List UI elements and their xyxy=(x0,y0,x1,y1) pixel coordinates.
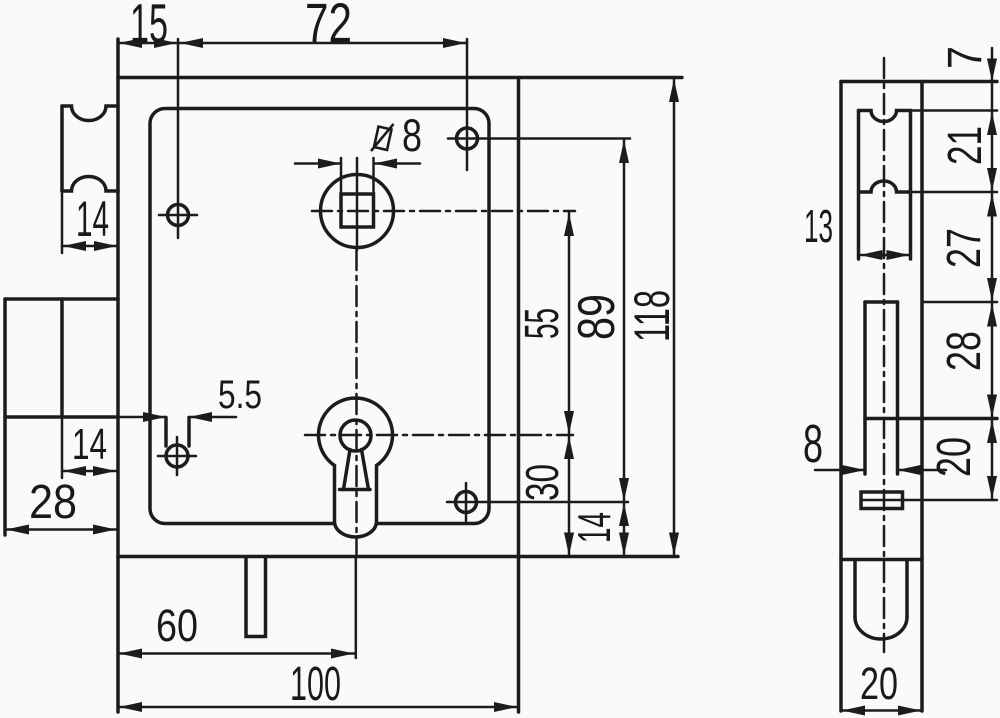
dimension line 118 xyxy=(673,78,676,557)
lower-left block left edge + extension for 28 dim xyxy=(3,299,7,535)
lower-left block step line xyxy=(60,299,64,417)
horizontal center line through follower + ext for 55 dim xyxy=(312,210,575,213)
diameter symbol of label (diam)8 xyxy=(371,124,394,151)
svg-text:28: 28 xyxy=(29,476,77,529)
svg-text:72: 72 xyxy=(305,0,352,54)
27 bottom arrow xyxy=(987,278,997,301)
extension line y=302 for 27/28 xyxy=(922,301,997,304)
svg-text:8: 8 xyxy=(402,110,422,161)
svg-text:5.5: 5.5 xyxy=(218,373,262,417)
slot left edge above lower-left hole xyxy=(164,418,168,447)
side view top edge + extension for 7 dim xyxy=(841,80,997,84)
dimension line 55 / 30 xyxy=(568,212,571,557)
28 bottom arrow xyxy=(987,395,997,418)
keyhole ward bottom line xyxy=(340,488,371,492)
side slot right edge + ext for 8 dim xyxy=(896,302,900,474)
dim 5.5 left leader xyxy=(118,416,166,419)
extension line y=110.5 for 7/21 xyxy=(911,109,997,112)
svg-text:14: 14 xyxy=(72,420,107,469)
vertical center line follower-keyhole xyxy=(355,250,358,556)
dimension line upper 14 xyxy=(62,245,118,248)
side chain dimension line 7/21/27/28/20 xyxy=(991,48,994,500)
55 bottom arrow xyxy=(564,411,574,434)
keyhole ward left side xyxy=(344,450,351,490)
svg-text:20: 20 xyxy=(928,437,981,477)
extension line left of square xyxy=(340,158,343,194)
21 bottom arrow xyxy=(987,168,997,191)
key guide dome left side xyxy=(853,561,857,617)
vertical cross lower-left hole xyxy=(176,437,179,475)
lock case bottom edge + extension for 118/14 dims xyxy=(118,555,678,559)
118 top arrow xyxy=(669,79,679,102)
svg-text:55: 55 xyxy=(516,308,569,339)
svg-text:118: 118 xyxy=(624,290,680,342)
upper 14 left arrow xyxy=(63,241,86,251)
dim 15 left arrow xyxy=(119,38,142,48)
20 bottom arrow xyxy=(987,476,997,499)
dim 5.5 right leader xyxy=(189,416,236,419)
vertical line through top-right hole (ext for 72) xyxy=(466,39,469,170)
20 top arrow xyxy=(987,420,997,443)
dimension line 100 xyxy=(118,706,518,709)
horizontal cross top-left hole xyxy=(159,214,197,217)
extension line y=192 for 21/27 xyxy=(911,191,997,194)
side view right edge + extension for bottom 20 xyxy=(920,82,924,712)
60 right arrow xyxy=(331,649,354,659)
28 top arrow xyxy=(987,304,997,327)
side slot bottom edge + ext for 28/20 dims xyxy=(865,417,997,421)
side view case bottom line xyxy=(841,558,922,562)
27 top arrow xyxy=(987,194,997,217)
side view vertical center line xyxy=(883,58,886,652)
screw hole lower-left xyxy=(166,445,188,467)
center line through square (solid) xyxy=(356,158,359,250)
keyhole round part xyxy=(340,420,371,451)
upper 14 right arrow xyxy=(94,241,117,251)
bolt cross-section rectangle xyxy=(861,492,903,509)
svg-text:14: 14 xyxy=(76,191,109,247)
55 top arrow xyxy=(564,213,574,236)
svg-text:14: 14 xyxy=(568,512,620,543)
svg-text:15: 15 xyxy=(130,0,168,54)
svg-text:100: 100 xyxy=(290,658,341,711)
side slot left edge + ext for 8 dim xyxy=(863,302,867,474)
30 top arrow xyxy=(564,436,574,459)
svg-text:89: 89 xyxy=(568,294,626,340)
side knuckle left edge + ext for 13 xyxy=(857,111,861,260)
horizontal cross lower-left hole xyxy=(158,455,196,458)
keyhole ward right side xyxy=(362,450,369,490)
dim 8 left leader xyxy=(815,469,865,472)
extension line for upper 14 dim xyxy=(61,191,64,253)
28 left arrow xyxy=(6,525,29,535)
side slot top edge xyxy=(865,300,898,304)
screw hole bottom-right xyxy=(456,492,477,513)
13 right arrow xyxy=(887,250,910,260)
lock case right edge + extension line xyxy=(517,78,521,713)
lower 14 right arrow xyxy=(93,466,116,476)
dim 8 right leader xyxy=(898,469,947,472)
118 bottom arrow xyxy=(669,533,679,556)
extension line right of square xyxy=(372,158,375,194)
upper-left knuckle bottom edge with notch xyxy=(62,176,118,191)
dimension line lower 14 xyxy=(62,470,117,473)
side knuckle top edge with notch xyxy=(859,111,911,122)
89 top arrow xyxy=(619,140,629,163)
dimension line 60 xyxy=(118,652,356,655)
vertical extension below keyhole for 60 dim xyxy=(355,557,358,659)
lower-left block bottom edge xyxy=(5,415,118,419)
lock case left edge + extension lines xyxy=(116,39,120,712)
upper-left knuckle left edge xyxy=(60,106,64,191)
horizontal center line bottom-right hole + ext for 89/14 dims xyxy=(447,501,628,504)
side knuckle bottom edge with notch xyxy=(859,181,911,192)
lower-left block top edge xyxy=(5,297,118,301)
upper-left knuckle top edge with notch xyxy=(62,106,118,121)
28 right arrow xyxy=(93,525,116,535)
dimension line bottom 20 xyxy=(841,709,922,712)
vertical line through top-left hole (ext for 15/72) xyxy=(177,39,180,238)
screw hole top-left xyxy=(168,205,189,226)
dim 72 right arrow xyxy=(443,38,466,48)
bottom 20 right arrow xyxy=(898,706,921,716)
lower 14 left arrow xyxy=(63,466,86,476)
latch bar below case xyxy=(246,557,266,637)
vertical cross bottom-right hole xyxy=(465,483,468,521)
svg-text:27: 27 xyxy=(938,228,991,268)
dim diameter-8 right leader xyxy=(374,162,420,165)
svg-text:20: 20 xyxy=(860,658,898,709)
89 bottom arrow xyxy=(619,478,629,501)
100 right arrow xyxy=(494,702,517,712)
dimension line 28 xyxy=(5,528,117,531)
dimension line 15 and 72 xyxy=(118,42,467,45)
bottom 20 left arrow xyxy=(842,706,865,716)
keyhole escutcheon silhouette xyxy=(319,398,393,537)
screw hole top-right xyxy=(457,128,478,149)
svg-text:60: 60 xyxy=(156,600,198,651)
svg-text:28: 28 xyxy=(938,331,991,371)
svg-text:13: 13 xyxy=(804,200,833,252)
inner cover plate rounded rectangle xyxy=(150,109,489,524)
dimension line 89 / 14 xyxy=(623,139,626,557)
slot right edge above lower-left hole xyxy=(187,418,191,447)
lock case top edge + extension for 118 dim xyxy=(118,76,682,80)
follower circle xyxy=(321,175,394,248)
100 left arrow xyxy=(119,702,142,712)
7 bottom arrow (outside above top edge) xyxy=(987,59,997,82)
dim 72 left arrow xyxy=(180,38,203,48)
key guide dome bottom arc xyxy=(855,617,907,639)
extension line for lower 14 dim xyxy=(61,417,64,478)
right 14 bottom arrow xyxy=(619,533,629,556)
svg-text:7: 7 xyxy=(939,46,992,69)
bolt middle line + ext for 20 dim xyxy=(861,499,997,501)
horizontal center line through keyhole + ext for 55/30 dims xyxy=(305,434,573,437)
21 top arrow xyxy=(987,112,997,135)
square spindle hole 8x8 xyxy=(341,194,374,227)
30 bottom arrow xyxy=(564,533,574,556)
svg-text:8: 8 xyxy=(803,414,823,474)
side view left edge + extension for bottom 20 xyxy=(839,82,843,712)
dimension line 13 xyxy=(859,254,911,257)
13 left arrow xyxy=(860,250,883,260)
key guide dome right side xyxy=(905,561,909,617)
svg-text:21: 21 xyxy=(939,126,992,165)
dim diameter-8 left leader xyxy=(295,162,341,165)
svg-text:30: 30 xyxy=(516,464,568,501)
right 14 top arrow xyxy=(619,503,629,526)
side knuckle right edge + ext for 13 xyxy=(909,111,913,260)
horizontal center line top-right hole + ext for 89 dim xyxy=(448,137,630,140)
dim 15 right arrow xyxy=(154,38,177,48)
60 left arrow xyxy=(119,649,142,659)
